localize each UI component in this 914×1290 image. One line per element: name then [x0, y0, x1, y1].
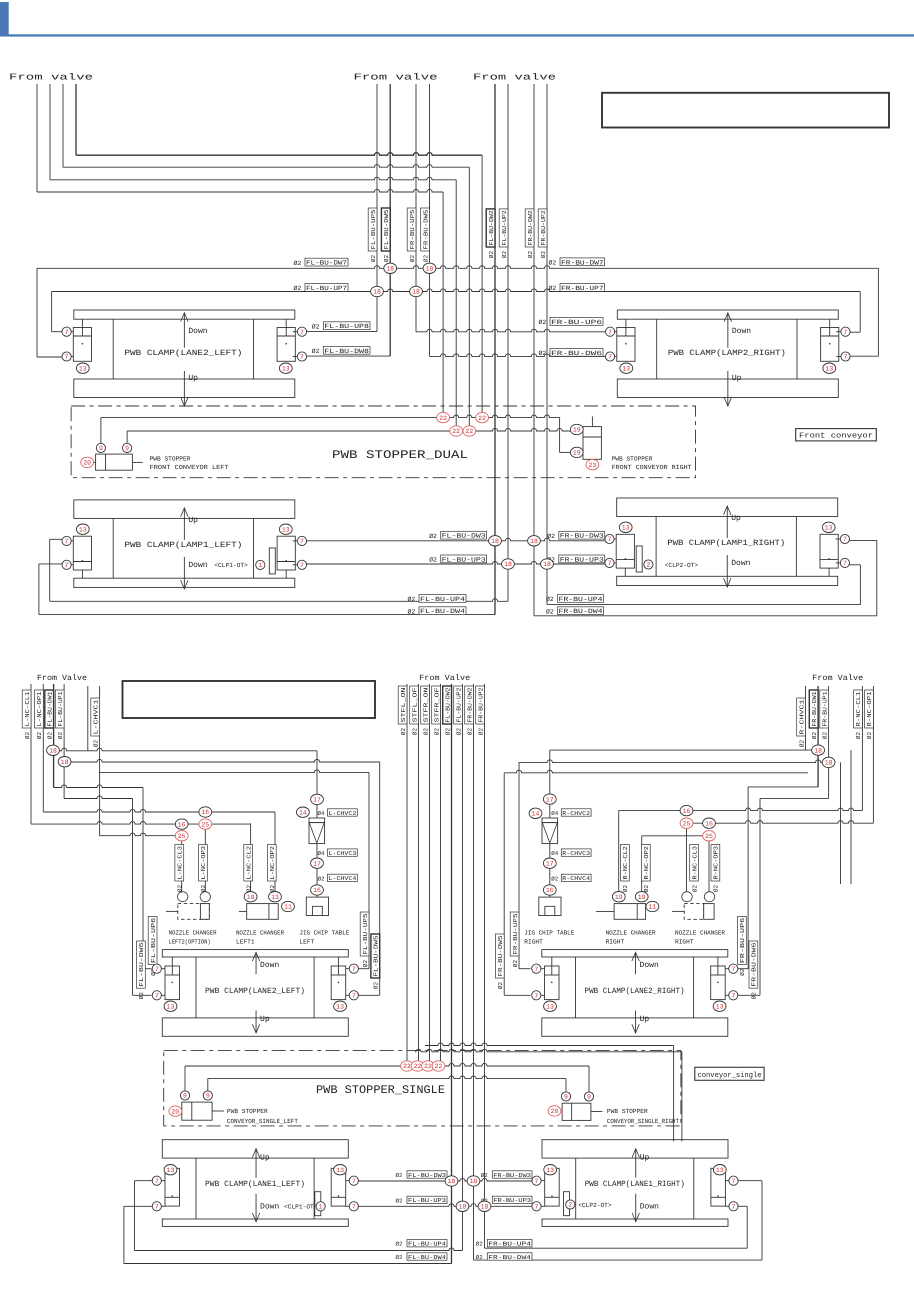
svg-text:PWB CLAMP(LANE2_LEFT): PWB CLAMP(LANE2_LEFT)	[205, 987, 305, 996]
svg-text:FL-BU-DW8: FL-BU-DW8	[324, 348, 369, 355]
svg-text:7: 7	[608, 560, 612, 567]
label FR-BU-DW1	[809, 690, 818, 728]
label FL-BU-UP6	[148, 916, 157, 964]
svg-text:RIGHT: RIGHT	[606, 939, 625, 946]
svg-text:Ø4: Ø4	[318, 810, 325, 817]
label R-NC-CL2	[621, 845, 630, 882]
svg-text:PWB CLAMP(LANE1_RIGHT): PWB CLAMP(LANE1_RIGHT)	[585, 1180, 685, 1189]
node 18	[467, 1176, 480, 1186]
PWB CLAMP LANE2_LEFT	[162, 950, 348, 957]
svg-text:7: 7	[732, 1204, 736, 1211]
node 13	[269, 892, 282, 902]
svg-text:FR-BU-DW3: FR-BU-DW3	[493, 1172, 531, 1179]
svg-text:Down: Down	[260, 1202, 279, 1211]
svg-text:7: 7	[300, 354, 304, 361]
svg-text:FR-BU-DW6: FR-BU-DW6	[551, 350, 602, 357]
svg-text:13: 13	[546, 1003, 554, 1010]
svg-text:19: 19	[247, 894, 255, 901]
node 18	[423, 263, 436, 273]
svg-text:Ø2: Ø2	[497, 982, 504, 990]
svg-text:1: 1	[258, 562, 262, 569]
label FR-BU-UP6	[738, 916, 747, 964]
svg-text:Up: Up	[188, 374, 198, 383]
wires to LANE2_LEFT right cylinder	[368, 772, 370, 968]
svg-text:13: 13	[546, 1167, 554, 1174]
svg-text:LEFT: LEFT	[299, 939, 314, 946]
svg-text:13: 13	[716, 1003, 724, 1010]
svg-text:L-NC-OP3: L-NC-OP3	[200, 846, 207, 880]
nozzle changer right1 drops	[618, 811, 620, 892]
svg-text:Ø2: Ø2	[422, 255, 429, 263]
svg-text:18: 18	[814, 747, 822, 754]
svg-text:Ø2: Ø2	[547, 533, 555, 540]
svg-text:FRONT CONVEYOR LEFT: FRONT CONVEYOR LEFT	[150, 464, 229, 471]
label STFL_OF	[410, 686, 419, 724]
svg-text:PWB CLAMP(LANE1_LEFT): PWB CLAMP(LANE1_LEFT)	[205, 1180, 305, 1189]
svg-text:7: 7	[352, 966, 356, 973]
label L-NC-CL2	[244, 845, 253, 882]
svg-text:Ø2: Ø2	[540, 251, 547, 259]
svg-text:FR-BU-DW6: FR-BU-DW6	[751, 942, 758, 987]
svg-text:R-NC-CL2: R-NC-CL2	[622, 846, 629, 880]
svg-text:Ø2: Ø2	[396, 1241, 403, 1248]
top-right blank title box	[602, 93, 889, 128]
svg-text:22: 22	[414, 1063, 422, 1070]
svg-text:L-CHVC1: L-CHVC1	[92, 699, 99, 735]
svg-text:7: 7	[731, 993, 735, 1000]
svg-text:From valve: From valve	[9, 73, 93, 83]
svg-text:7: 7	[352, 1204, 356, 1211]
label FR-BU-DW2	[465, 686, 474, 724]
svg-text:13: 13	[336, 1003, 344, 1010]
svg-text:Ø2: Ø2	[92, 740, 99, 748]
svg-text:FR-BU-UP3: FR-BU-UP3	[560, 556, 604, 563]
svg-text:Up: Up	[188, 516, 198, 525]
svg-text:FL-BU-DW7: FL-BU-DW7	[306, 260, 347, 267]
svg-text:7: 7	[534, 966, 538, 973]
header blue bar	[0, 2, 9, 37]
node 18	[384, 263, 397, 273]
svg-text:Ø2: Ø2	[362, 960, 369, 968]
svg-text:Up: Up	[640, 1015, 650, 1024]
pwb stopper conveyor_single_right	[562, 1103, 591, 1120]
svg-text:13: 13	[716, 1167, 724, 1174]
svg-text:Ø2: Ø2	[551, 875, 558, 882]
svg-text:PWB CLAMP(LANE2_LEFT): PWB CLAMP(LANE2_LEFT)	[124, 349, 242, 358]
svg-text:Up: Up	[731, 514, 741, 523]
svg-text:FL-BU-UP6: FL-BU-UP6	[150, 917, 157, 963]
label FL-BU-DW2	[443, 686, 452, 724]
label R-NC-CL3	[690, 845, 699, 882]
svg-text:Ø2: Ø2	[811, 732, 818, 740]
svg-text:L-NC-OP1: L-NC-OP1	[36, 691, 43, 726]
svg-text:PWB STOPPER: PWB STOPPER	[607, 1108, 648, 1115]
svg-text:R-NC-CL3: R-NC-CL3	[691, 846, 698, 880]
node 18	[812, 745, 825, 755]
svg-text:18: 18	[448, 1178, 456, 1185]
node 19	[612, 892, 625, 902]
svg-text:FL-BU-UP2: FL-BU-UP2	[455, 687, 462, 722]
svg-text:FL-BU-DW3: FL-BU-DW3	[442, 533, 486, 540]
svg-text:Ø2: Ø2	[527, 251, 534, 259]
svg-text:7: 7	[155, 993, 159, 1000]
svg-text:18: 18	[426, 266, 434, 273]
svg-text:2: 2	[568, 1202, 572, 1209]
svg-text:20: 20	[171, 1108, 179, 1115]
svg-text:FL-BU-UP3: FL-BU-UP3	[442, 556, 486, 563]
svg-text:R-NC-OP3: R-NC-OP3	[713, 846, 720, 880]
svg-text:Ø2: Ø2	[539, 319, 547, 326]
label STFL_ON	[398, 686, 407, 724]
svg-text:Up: Up	[640, 1154, 650, 1163]
svg-text:11: 11	[648, 904, 656, 911]
node 22	[432, 1061, 445, 1071]
svg-text:Ø2: Ø2	[318, 875, 325, 882]
svg-text:L-NC-OP2: L-NC-OP2	[269, 846, 276, 880]
label L-NC-OP2	[267, 845, 276, 882]
pwb stopper front conveyor left	[96, 454, 133, 470]
svg-text:16: 16	[313, 887, 321, 894]
svg-text:Ø2: Ø2	[643, 885, 650, 893]
svg-text:Ø2: Ø2	[481, 1172, 488, 1179]
svg-text:13: 13	[282, 526, 290, 533]
wire FL/FR-BU-UP3	[305, 561, 604, 564]
svg-text:7: 7	[608, 354, 612, 361]
svg-text:conveyor_single: conveyor_single	[698, 1071, 762, 1080]
svg-text:R-NC-CL1: R-NC-CL1	[855, 691, 862, 726]
svg-text:7: 7	[65, 354, 69, 361]
svg-text:14: 14	[299, 809, 307, 816]
svg-text:13: 13	[336, 1167, 344, 1174]
node 16	[199, 807, 212, 817]
label FL-BU-DW5	[381, 208, 390, 251]
label R-NC-CL1	[854, 690, 863, 728]
center valve verticals	[406, 684, 408, 1061]
node 18	[502, 559, 515, 569]
svg-text:RIGHT: RIGHT	[675, 939, 694, 946]
node 25	[680, 818, 693, 828]
svg-text:16: 16	[705, 820, 713, 827]
svg-text:7: 7	[843, 536, 847, 543]
svg-text:PWB STOPPER_DUAL: PWB STOPPER_DUAL	[332, 449, 468, 462]
node 18	[445, 1176, 458, 1186]
svg-text:FL-BU-UP4: FL-BU-UP4	[408, 1241, 447, 1248]
svg-text:R-CHVC1: R-CHVC1	[798, 699, 805, 735]
svg-text:NOZZLE CHANGER: NOZZLE CHANGER	[606, 930, 656, 937]
svg-text:13: 13	[271, 894, 279, 901]
svg-text:Ø2: Ø2	[546, 596, 554, 603]
svg-text:Ø2: Ø2	[396, 1254, 403, 1261]
Front conveyor label box	[796, 429, 877, 441]
svg-text:PWB STOPPER_SINGLE: PWB STOPPER_SINGLE	[316, 1084, 445, 1097]
svg-text:Ø2: Ø2	[546, 608, 554, 615]
svg-text:18: 18	[49, 748, 57, 755]
wire around stopper A	[425, 1043, 674, 1046]
svg-text:FR-BU-DW2: FR-BU-DW2	[527, 210, 534, 246]
svg-text:NOZZLE CHANGER: NOZZLE CHANGER	[169, 930, 217, 937]
svg-text:Ø2: Ø2	[370, 255, 377, 263]
svg-text:Ø2: Ø2	[383, 255, 390, 263]
svg-text:18: 18	[459, 1204, 467, 1211]
bottom left valve verticals	[30, 684, 32, 824]
label FR-BU-DW5	[495, 934, 504, 978]
svg-text:Up: Up	[260, 1154, 270, 1163]
node 22	[401, 1061, 414, 1071]
PWB STOPPER_DUAL dashed box	[71, 406, 695, 478]
svg-text:R-CHVC4: R-CHVC4	[562, 875, 590, 882]
svg-text:16: 16	[546, 887, 554, 894]
svg-text:Ø2: Ø2	[429, 557, 437, 564]
node 18	[489, 536, 502, 546]
svg-text:Down: Down	[640, 1202, 659, 1211]
stopper drop wires	[442, 192, 444, 418]
label FR-BU-UP5	[510, 912, 519, 956]
wires to LANE1_RIGHT right cylinder	[761, 1181, 763, 1260]
svg-text:23: 23	[588, 462, 596, 469]
node 18	[371, 286, 384, 296]
node 16	[680, 805, 693, 815]
svg-text:Ø2: Ø2	[408, 596, 416, 603]
svg-text:Ø2: Ø2	[549, 285, 557, 292]
right valve wires group	[494, 84, 496, 615]
svg-text:7: 7	[300, 562, 304, 569]
node 19	[635, 892, 648, 902]
svg-text:FR-BU-DW4: FR-BU-DW4	[559, 608, 603, 615]
label FR-BU-UP5	[407, 208, 416, 251]
wires right clamp outer	[859, 292, 861, 333]
svg-text:7: 7	[535, 1204, 539, 1211]
svg-text:L-NC-CL2: L-NC-CL2	[245, 846, 252, 880]
svg-text:13: 13	[622, 365, 630, 372]
svg-text:<CLP1-OT>: <CLP1-OT>	[284, 1203, 318, 1210]
svg-text:7: 7	[608, 329, 612, 336]
label FR-BU-UP2	[476, 686, 485, 724]
wires to LANE2_RIGHT right cylinder	[747, 787, 749, 969]
node 22	[422, 1061, 435, 1071]
svg-text:13: 13	[825, 525, 833, 532]
svg-text:7: 7	[300, 329, 304, 336]
svg-text:Ø2: Ø2	[429, 533, 437, 540]
node 9	[180, 1091, 189, 1100]
svg-text:FL-BU-UP8: FL-BU-UP8	[324, 323, 369, 330]
label L-CHVC1	[91, 698, 100, 736]
nozzle changer left2 drops	[204, 829, 206, 892]
svg-text:7: 7	[731, 966, 735, 973]
svg-text:14: 14	[532, 811, 540, 818]
svg-text:Ø2: Ø2	[294, 260, 302, 267]
node 18	[528, 536, 541, 546]
svg-text:7: 7	[65, 538, 69, 545]
svg-text:7: 7	[155, 1204, 159, 1211]
svg-text:FL-BU-UP5: FL-BU-UP5	[362, 913, 369, 955]
svg-text:25: 25	[683, 820, 691, 827]
svg-text:Ø2: Ø2	[751, 992, 758, 1000]
svg-text:Ø2: Ø2	[713, 885, 720, 893]
node 14	[297, 807, 310, 817]
svg-text:L-CHVC2: L-CHVC2	[329, 810, 357, 817]
svg-text:7: 7	[65, 329, 69, 336]
svg-text:Down: Down	[188, 561, 207, 570]
node 25	[175, 831, 188, 841]
svg-text:7: 7	[65, 562, 69, 569]
svg-text:Ø2: Ø2	[539, 350, 547, 357]
svg-text:Ø2: Ø2	[477, 728, 484, 736]
svg-text:18: 18	[373, 289, 381, 296]
svg-text:13: 13	[167, 1003, 175, 1010]
svg-text:Ø2: Ø2	[821, 732, 828, 740]
node 18	[478, 1201, 491, 1211]
svg-text:Ø2: Ø2	[622, 885, 629, 893]
svg-text:FL-BU-DW4: FL-BU-DW4	[420, 608, 465, 615]
svg-text:13: 13	[622, 525, 630, 532]
wire FL/FR-BU-DW3 bottom	[358, 1178, 532, 1181]
PWB STOPPER_SINGLE dashed box	[164, 1050, 681, 1126]
svg-text:From valve: From valve	[354, 73, 438, 83]
svg-text:Ø2: Ø2	[433, 728, 440, 736]
svg-text:Ø2: Ø2	[422, 728, 429, 736]
svg-text:7: 7	[732, 1178, 736, 1185]
label R-NC-OP3	[711, 845, 720, 882]
label FL-BU-DW6	[137, 941, 146, 988]
nozzle changer left1 drops	[250, 823, 252, 891]
svg-text:Ø2: Ø2	[312, 348, 320, 355]
node 17	[543, 794, 556, 804]
svg-text:Ø2: Ø2	[200, 885, 207, 893]
node 16	[311, 885, 324, 895]
svg-text:Ø2: Ø2	[501, 251, 508, 259]
jig chip table right column	[549, 750, 551, 795]
bottom left feed horizontals	[53, 748, 317, 751]
jig chip table left symbol	[306, 897, 328, 915]
nozzle changer right1	[614, 904, 646, 920]
node 18	[822, 757, 835, 767]
svg-text:FR-BU-UP6: FR-BU-UP6	[551, 319, 602, 326]
svg-text:11: 11	[284, 904, 292, 911]
svg-text:Ø2: Ø2	[476, 1254, 483, 1261]
left valve wires group	[36, 84, 38, 192]
svg-text:PWB CLAMP(LAMP1_RIGHT): PWB CLAMP(LAMP1_RIGHT)	[667, 539, 785, 548]
svg-text:Ø2: Ø2	[455, 728, 462, 736]
svg-text:Ø2: Ø2	[269, 885, 276, 893]
svg-text:RIGHT: RIGHT	[524, 939, 543, 946]
svg-text:9: 9	[206, 1093, 210, 1100]
svg-text:JIG CHIP TABLE: JIG CHIP TABLE	[299, 930, 349, 937]
svg-text:1: 1	[319, 1204, 323, 1211]
svg-text:CONVEYOR_SINGLE_LEFT: CONVEYOR_SINGLE_LEFT	[227, 1118, 298, 1125]
svg-text:L-NC-CL1: L-NC-CL1	[24, 691, 31, 726]
svg-text:Ø2: Ø2	[512, 960, 519, 968]
svg-text:LEFT2(OPTION): LEFT2(OPTION)	[169, 939, 211, 946]
svg-text:Ø2: Ø2	[46, 732, 53, 740]
svg-text:9: 9	[183, 1093, 187, 1100]
svg-text:FR-BU-DW7: FR-BU-DW7	[561, 259, 604, 266]
label FL-BU-DW1	[45, 690, 54, 728]
label FR-BU-UP2	[538, 209, 547, 247]
label STFR_OF	[432, 686, 441, 724]
svg-text:25: 25	[201, 821, 209, 828]
svg-text:FR-BU-DW1: FR-BU-DW1	[811, 691, 818, 726]
node 14	[529, 808, 542, 818]
svg-text:STFR_ON: STFR_ON	[422, 687, 429, 723]
svg-text:22: 22	[478, 415, 486, 422]
wires to LANE1_LEFT left cylinder	[134, 1181, 136, 1251]
node 20	[169, 1106, 182, 1116]
label FR-BU-DW2	[525, 209, 534, 247]
pwb stopper conveyor_single_left	[182, 1102, 212, 1120]
svg-text:Ø2: Ø2	[466, 728, 473, 736]
bottom-left blank title box	[123, 681, 376, 718]
svg-text:PWB STOPPER: PWB STOPPER	[227, 1108, 268, 1115]
svg-text:FL-BU-UP4: FL-BU-UP4	[420, 596, 465, 603]
svg-text:PWB CLAMP(LANE2_RIGHT): PWB CLAMP(LANE2_RIGHT)	[585, 987, 685, 996]
stopper single wire lower	[207, 1079, 209, 1091]
svg-text:7: 7	[300, 538, 304, 545]
pwb stopper front conveyor right	[591, 416, 593, 426]
svg-text:16: 16	[201, 809, 209, 816]
svg-text:R-NC-OP1: R-NC-OP1	[866, 691, 873, 726]
wire FL/FR-BU-UP7	[52, 289, 861, 292]
svg-text:R-CHVC2: R-CHVC2	[562, 810, 590, 817]
label R-CHVC1	[797, 698, 806, 736]
node 18	[58, 757, 71, 767]
svg-text:17: 17	[546, 796, 554, 803]
svg-text:FR-BU-DW5: FR-BU-DW5	[422, 209, 429, 249]
node 11	[282, 901, 295, 911]
svg-text:Ø2: Ø2	[549, 260, 557, 267]
node 22	[450, 426, 463, 436]
svg-text:7: 7	[352, 1178, 356, 1185]
svg-text:Ø2: Ø2	[177, 885, 184, 893]
svg-text:CONVEYOR_SINGLE_RIGHT: CONVEYOR_SINGLE_RIGHT	[607, 1118, 679, 1125]
svg-text:<CLP2-OT>: <CLP2-OT>	[665, 562, 699, 569]
svg-text:18: 18	[491, 538, 499, 545]
svg-text:7: 7	[843, 560, 847, 567]
PWB CLAMP LANE2_LEFT	[74, 310, 295, 319]
svg-text:Ø2: Ø2	[739, 968, 746, 976]
PWB CLAMP LANE1_LEFT	[162, 1140, 348, 1158]
svg-text:Ø2: Ø2	[373, 982, 380, 990]
svg-text:FR-BU-UP7: FR-BU-UP7	[561, 285, 604, 292]
svg-text:Ø2: Ø2	[400, 728, 407, 736]
svg-text:25: 25	[178, 833, 186, 840]
svg-text:Down: Down	[731, 559, 750, 568]
nozzle changer left1	[247, 904, 279, 920]
svg-text:18: 18	[504, 561, 512, 568]
svg-text:Ø2: Ø2	[312, 323, 320, 330]
svg-text:FR-BU-UP2: FR-BU-UP2	[540, 210, 547, 246]
svg-text:Ø2: Ø2	[409, 255, 416, 263]
wire FL/FR-BU-DW3	[305, 538, 604, 541]
svg-text:FL-BU-DW6: FL-BU-DW6	[138, 942, 145, 987]
node 9	[96, 443, 105, 452]
wires to LANE2_RIGHT left cylinder	[518, 762, 520, 968]
svg-text:18: 18	[61, 759, 69, 766]
svg-text:Up: Up	[732, 374, 742, 383]
label STFR_ON	[421, 686, 430, 724]
mid valve wires group	[376, 84, 378, 332]
wire FL/FR-BU-UP3 bottom	[358, 1204, 532, 1207]
svg-text:9: 9	[587, 1094, 591, 1101]
svg-text:Ø2: Ø2	[245, 885, 252, 893]
svg-text:Ø2: Ø2	[138, 992, 145, 1000]
bottom right feed horizontals	[550, 749, 818, 751]
PWB CLAMP LANE2_RIGHT	[542, 950, 728, 957]
svg-text:L-NC-CL3: L-NC-CL3	[177, 846, 184, 880]
svg-text:From Valve: From Valve	[812, 674, 863, 683]
svg-text:7: 7	[535, 1178, 539, 1185]
svg-text:FL-BU-UP5: FL-BU-UP5	[370, 209, 377, 249]
wire FL/FR-BU-DW7	[37, 266, 878, 269]
